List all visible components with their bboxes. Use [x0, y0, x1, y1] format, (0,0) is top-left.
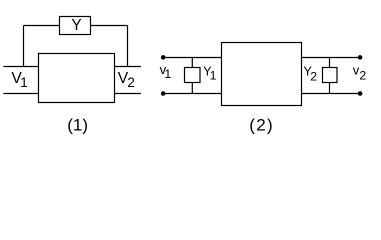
wire: right top lead diagram 2 [302, 57, 361, 59]
label Y1 [203, 63, 217, 82]
label (2) caption [249, 115, 274, 134]
admittance Y (feedback box) [60, 17, 91, 35]
wire: port2 top lead [115, 66, 142, 68]
wire: shunt Y1 lower connector [191, 83, 193, 94]
svg-text:2: 2 [359, 69, 366, 83]
two-port network box N2 [222, 43, 302, 106]
wire: port2 bottom lead [115, 93, 142, 95]
admittance Y2 (shunt box) [323, 68, 338, 83]
terminal dot bottom-left [161, 91, 166, 96]
svg-text:2: 2 [310, 70, 317, 84]
wire: port1 top lead [3, 66, 38, 68]
wire: shunt Y2 lower connector [329, 83, 331, 94]
label (1) caption [67, 115, 88, 134]
wire: feedback top right segment [91, 25, 128, 27]
label v1 [160, 62, 172, 81]
wire: port1 bottom lead [3, 93, 38, 95]
svg-text:1: 1 [164, 67, 171, 81]
svg-text:1: 1 [210, 69, 217, 83]
label Y2 [303, 63, 317, 83]
svg-text:1: 1 [20, 75, 27, 90]
terminal dot top-right [358, 55, 363, 60]
wire: shunt Y2 upper connector [329, 58, 331, 68]
terminal dot top-left [161, 55, 166, 60]
terminal dot bottom-right [358, 91, 363, 96]
svg-text:2: 2 [127, 75, 134, 90]
wire: left top lead diagram 2 [163, 57, 221, 59]
wire: right riser from feedback Y [127, 26, 129, 67]
wire: left riser to feedback Y [23, 26, 25, 67]
wire: left bottom lead diagram 2 [163, 93, 221, 95]
svg-text:(2): (2) [249, 115, 274, 134]
svg-text:Y: Y [71, 17, 81, 34]
label V2 (port 2 voltage) [118, 70, 135, 90]
label V1 (port 1 voltage) [11, 70, 27, 90]
wire: right bottom lead diagram 2 [302, 93, 361, 95]
label Y [71, 17, 81, 34]
wire: shunt Y1 upper connector [191, 58, 193, 68]
wire: feedback top left segment [24, 25, 60, 27]
two-port network box N1 [39, 54, 115, 103]
svg-text:(1): (1) [67, 115, 88, 134]
label v2 [353, 62, 367, 82]
admittance Y1 (shunt box) [185, 68, 201, 83]
